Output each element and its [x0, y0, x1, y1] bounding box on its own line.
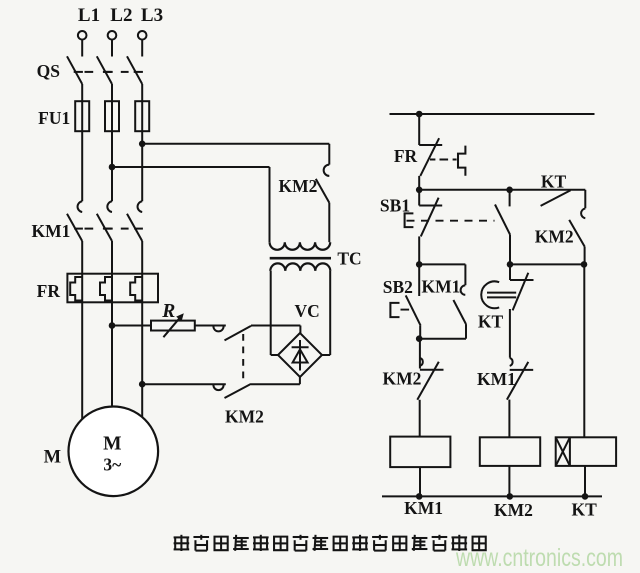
wire KM1-FR pole 2: [111, 241, 113, 274]
wire R to KM2 contact: [195, 325, 226, 327]
QS linkage dashed: [85, 71, 129, 73]
wire to KM1 coil: [419, 400, 421, 437]
contact KM1 self-hold: [453, 264, 466, 338]
contactor KM2 lower blade: [225, 384, 252, 398]
contactor KM1 pole 3 blade: [127, 214, 143, 241]
wire FR-motor pole 3: [141, 274, 143, 418]
contactor KM1 pole 3 fixed hook: [138, 201, 143, 212]
node mid junction: [506, 187, 513, 194]
label M inside: [103, 434, 121, 455]
switch QS pole 1 blade: [67, 56, 83, 84]
svg-text:FR: FR: [394, 146, 418, 166]
label SB1: [380, 196, 410, 216]
label VC: [295, 301, 320, 321]
transformer TC primary left lead: [269, 167, 271, 242]
motor M circle: [69, 407, 159, 497]
label FR main: [37, 281, 61, 301]
label SB2: [383, 277, 413, 297]
svg-text:KM1: KM1: [422, 276, 461, 296]
coil KM1: [390, 437, 450, 468]
svg-text:KM1: KM1: [32, 221, 71, 241]
svg-text:L1: L1: [78, 5, 100, 26]
wire top rail: [390, 113, 595, 115]
label KM1 main: [32, 221, 71, 241]
fuse FU1 pole 3: [135, 101, 149, 131]
wire tap to TC left: [112, 167, 270, 242]
wire FR-motor pole 2: [111, 274, 113, 407]
watermark cntronics: [455, 544, 623, 572]
node L2 terminal: [108, 31, 117, 40]
svg-text:SB2: SB2: [383, 277, 413, 297]
node tap L2: [109, 164, 116, 171]
switch QS pole 3 blade: [127, 56, 143, 84]
node top rail junction: [416, 111, 423, 118]
SB1 button cap: [405, 213, 414, 227]
timer KT NO contact: [541, 190, 571, 206]
svg-text:KM1: KM1: [404, 498, 443, 518]
svg-text:TC: TC: [337, 248, 361, 268]
contactor KM1 pole 1 blade: [67, 214, 83, 241]
wire KT coil to rail: [584, 466, 586, 497]
label KM2 brake: [225, 407, 264, 427]
contact KM1 NC interlock: [507, 358, 533, 400]
contactor KM2 lower fixed hook: [213, 385, 223, 390]
wire tap to R: [112, 325, 151, 327]
FR heater element pole 3: [130, 277, 142, 301]
coil KM2: [480, 437, 540, 466]
KT delay cup: [481, 281, 516, 308]
wire tap to TC right: [142, 144, 329, 165]
label FU1: [38, 108, 70, 128]
fuse FU1 pole 1: [75, 101, 89, 131]
resistor R: [151, 321, 195, 331]
wire L3 drop: [141, 40, 143, 57]
contactor KM2 primary blade: [316, 179, 330, 203]
node A junction: [416, 187, 423, 194]
wire L1 drop: [81, 40, 83, 57]
node D junction: [507, 261, 514, 268]
fuse FU1 pole 2: [105, 101, 119, 131]
wire TC secondary right: [322, 271, 330, 355]
caption Chinese text: [174, 535, 486, 551]
rectifier VC diamond: [278, 333, 322, 377]
label TC: [337, 248, 361, 268]
transformer TC primary winding: [270, 242, 331, 250]
wire KM2 to TC primary: [328, 203, 330, 243]
label KM1 coil: [404, 498, 443, 518]
svg-text:M: M: [103, 434, 121, 455]
coil KT: [556, 437, 616, 466]
node L1 terminal: [78, 31, 87, 40]
FR trip element: [458, 146, 465, 176]
label KM2 coil: [494, 500, 533, 520]
label KT contact: [541, 172, 567, 192]
svg-text:M: M: [44, 448, 61, 468]
label 3-phase: [103, 455, 121, 475]
pushbutton SB1 NO twin: [495, 190, 510, 265]
label KT delay: [478, 311, 504, 331]
wire FR to node A: [418, 176, 420, 190]
svg-text:KT: KT: [541, 172, 567, 192]
KM1 linkage dashed: [85, 228, 129, 230]
wire SB1 down: [418, 236, 420, 264]
svg-text:KM2: KM2: [535, 227, 574, 247]
svg-text:KT: KT: [572, 500, 598, 520]
node C junction: [416, 335, 423, 342]
transformer TC core: [270, 257, 331, 260]
node R tap junction: [109, 322, 116, 329]
wire KM1-FR pole 3: [141, 241, 143, 274]
node brake tap junction: [139, 381, 146, 388]
wire brake lower: [142, 383, 226, 385]
svg-text:R: R: [161, 301, 175, 322]
label QS: [37, 61, 60, 81]
wire KM2 coil to rail: [508, 466, 510, 497]
timer KT delayed NC contact: [510, 264, 534, 310]
wire KM1 coil to rail: [419, 467, 421, 496]
svg-text:www.cntronics.com: www.cntronics.com: [455, 544, 623, 572]
label L1: [78, 5, 100, 26]
label KM2 primary: [279, 176, 318, 196]
svg-text:L2: L2: [110, 5, 132, 26]
svg-text:VC: VC: [295, 301, 320, 321]
FR heater element pole 2: [100, 277, 112, 301]
svg-text:FU1: FU1: [38, 108, 70, 128]
wire TC secondary left: [271, 271, 278, 355]
SB2 button cap: [390, 303, 409, 317]
wire bottom rail: [382, 495, 602, 497]
wire mid rail: [419, 189, 585, 191]
pushbutton SB1 NC: [419, 190, 442, 237]
svg-text:FR: FR: [37, 281, 61, 301]
svg-text:KM2: KM2: [279, 176, 318, 196]
FR trip linkage dashed: [430, 159, 457, 161]
wire KM1-FR pole 1: [81, 241, 83, 274]
node KM1 rail junction: [416, 493, 423, 500]
node L3 terminal: [138, 31, 147, 40]
node E junction: [581, 261, 588, 268]
FR heater element pole 1: [70, 277, 82, 301]
label KM1 self-hold: [422, 276, 461, 296]
transformer TC secondary winding: [270, 263, 330, 270]
svg-text:KM2: KM2: [225, 407, 264, 427]
wire L2 drop: [111, 40, 113, 57]
label L3: [141, 5, 163, 26]
R adjust arrow: [163, 313, 183, 337]
SB1 linkage dashed: [407, 220, 495, 222]
svg-text:KT: KT: [478, 311, 504, 331]
wire right branch: [583, 264, 585, 437]
thermal relay FR box: [67, 274, 158, 303]
svg-text:KM1: KM1: [477, 369, 516, 389]
wire to KM2 coil: [508, 400, 510, 438]
wire QS-FU pole 2: [111, 84, 113, 201]
label KM2 interlock: [383, 368, 422, 388]
contactor KM2 primary hook: [324, 165, 330, 176]
wire blade to bridge top: [251, 326, 300, 334]
svg-text:QS: QS: [37, 61, 60, 81]
pushbutton SB2 NO: [406, 264, 421, 338]
contactor KM1 pole 2 fixed hook: [107, 201, 112, 212]
label M outside: [44, 448, 61, 468]
label L2: [110, 5, 132, 26]
wire rail to FR contact: [418, 114, 420, 145]
label KM1 interlock: [477, 369, 516, 389]
contactor KM2 upper fixed hook: [213, 326, 223, 331]
node KT rail junction: [582, 493, 589, 500]
node tap L3: [139, 141, 146, 148]
contactor KM1 pole 2 blade: [97, 214, 113, 241]
FR NC contact: [419, 138, 442, 176]
svg-text:SB1: SB1: [380, 196, 410, 216]
node KM2 rail junction: [507, 493, 514, 500]
node B junction: [416, 261, 423, 268]
wire FR-motor pole 1: [81, 274, 83, 420]
wire blade to bridge bottom: [251, 377, 300, 384]
wire QS-FU pole 1: [81, 84, 83, 201]
KM2 brake linkage dashed: [242, 334, 244, 381]
svg-text:L3: L3: [141, 5, 163, 26]
wire parallel bottom bridge: [419, 338, 466, 340]
contact KM2 NC interlock: [417, 339, 443, 400]
label KM2 self-hold: [535, 227, 574, 247]
label KT coil: [572, 500, 598, 520]
wire KT to KM1 interlock: [510, 309, 511, 358]
wire parallel top bridge: [419, 263, 465, 265]
wire mid lower rail: [510, 263, 584, 265]
label R: [161, 301, 175, 322]
contactor KM2 upper blade: [225, 326, 252, 341]
switch QS pole 2 blade: [97, 56, 113, 84]
svg-text:KM2: KM2: [494, 500, 533, 520]
wire QS-FU pole 3: [141, 84, 143, 201]
contact KM2 self-hold: [569, 190, 585, 265]
rectifier VC diode: [292, 340, 309, 371]
contactor KM1 pole 1 fixed hook: [78, 201, 83, 212]
svg-text:KM2: KM2: [383, 368, 422, 388]
svg-text:3~: 3~: [103, 455, 121, 475]
label FR control: [394, 146, 418, 166]
